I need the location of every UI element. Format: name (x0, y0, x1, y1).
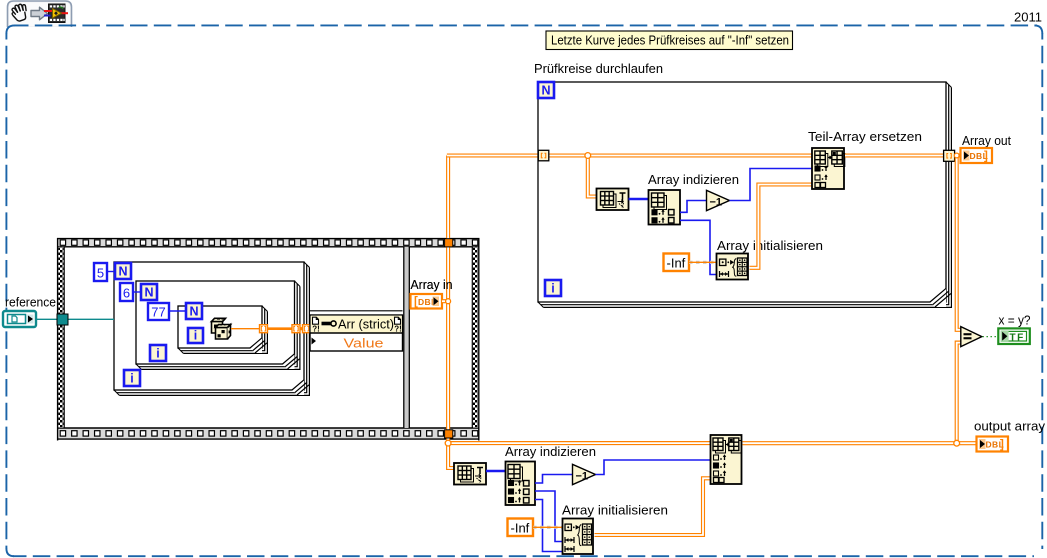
wire: main array wire bottom branch into array size (448, 442, 454, 468)
constant 5 (94, 263, 107, 281)
wire: reference refnum wire (36, 318, 114, 320)
wire: 2D array stub (300, 327, 303, 330)
svg-text:77: 77 (151, 305, 165, 320)
wire: loop frame shadows (139, 284, 298, 367)
constant -Inf (upper) (664, 254, 690, 272)
svg-text:x = y?: x = y? (999, 312, 1031, 327)
wire: array wire across main loop (546, 153, 813, 157)
wire: decrement to replace array subset index (upper) (730, 169, 813, 201)
node: wire junction at Array in (446, 299, 451, 304)
node: decrement -1 (lower) (573, 464, 596, 484)
svg-text:-Inf: -Inf (511, 521, 530, 536)
tunnel: sequence bottom tunnel (445, 430, 453, 438)
svg-text:?!: ?! (312, 325, 320, 334)
tunnel: main loop right tunnel (944, 150, 955, 161)
node: array size (upper) (597, 189, 629, 211)
tunnel: outer loop indexing tunnel (303, 325, 311, 333)
svg-text:output array: output array (974, 419, 1046, 434)
tunnel: sequence reference tunnel (57, 314, 68, 325)
tunnel: inner loop indexing tunnel (260, 325, 268, 333)
svg-text:Array indizieren: Array indizieren (648, 172, 739, 187)
svg-text:N: N (541, 84, 550, 98)
wire: bottom run to replace array subset (447, 441, 711, 445)
wire: main array wire vertical run (446, 156, 450, 444)
wire: Array in stub to vertical array wire (442, 299, 447, 303)
node: decrement -1 (upper) (707, 190, 730, 210)
node: output array indicator [DBL] (977, 437, 1009, 452)
wire: dice to inner tunnel (scalar DBL) (231, 328, 260, 330)
iteration terminal i (inner) (188, 328, 203, 343)
node: junction on main loop wire (585, 153, 591, 159)
node: TF boolean indicator (998, 328, 1030, 344)
wire: index array to decrement (lower) (535, 475, 573, 484)
wire: index array second out to initialize (lower) (535, 491, 563, 542)
wire: array size to index array (lower) (486, 470, 506, 473)
wire: decrement to replace array subset (lower) (596, 460, 711, 475)
node: toolbar tab (8, 1, 72, 27)
wire: loop frame shadows (117, 265, 307, 393)
iteration terminal i (outer) (124, 370, 140, 386)
constant 6 (120, 283, 133, 301)
node: wire junction bottom (445, 440, 451, 446)
svg-text:6: 6 (123, 286, 130, 301)
wire: lower vertical to equality y input (957, 343, 961, 444)
svg-text:Teil-Array ersetzen: Teil-Array ersetzen (808, 129, 922, 144)
tunnel: middle loop indexing tunnel (292, 325, 300, 333)
wire: replace array subset out to output array (743, 441, 977, 445)
iteration terminal i (main) (545, 280, 561, 296)
svg-text:−1: −1 (576, 470, 589, 482)
svg-text:−1: −1 (710, 196, 723, 208)
loop count N (inner) (186, 303, 202, 319)
iteration terminal i (middle) (150, 345, 166, 361)
svg-text:i: i (551, 282, 554, 296)
loop count N (outer) (115, 263, 131, 279)
wire: -Inf to initialize array (upper) (689, 261, 717, 264)
svg-text:Array initialisieren: Array initialisieren (717, 238, 823, 253)
wire: array size to index array (upper) (629, 198, 649, 201)
icon: step arrow (31, 7, 48, 20)
svg-text:i: i (130, 372, 133, 386)
wire: constant 5 to N (107, 271, 116, 273)
svg-text:-Inf: -Inf (667, 256, 686, 271)
svg-text:Array out: Array out (962, 133, 1011, 148)
svg-text:Array initialisieren: Array initialisieren (562, 503, 668, 518)
node: property node Arr (strict) / Value (310, 311, 403, 351)
constant -Inf (lower) (508, 519, 534, 537)
wire: loop frame shadows (541, 85, 949, 305)
wire: loop frame shadows (181, 309, 265, 351)
wire: constant 77 to N (169, 310, 187, 312)
svg-text:i: i (194, 329, 197, 343)
svg-text:i: i (156, 347, 159, 361)
loop count N (main) (538, 82, 554, 98)
wire: -Inf to initialize array (lower) (533, 526, 563, 529)
svg-text:Arr (strict): Arr (strict) (338, 317, 394, 332)
svg-text:Value: Value (344, 335, 384, 350)
wire: replace array subset out to right tunnel (845, 153, 944, 157)
icon: pan hand tool (12, 4, 26, 21)
constant 77 (148, 303, 169, 320)
wire: initialize array out to replace array subset (upper) (750, 185, 812, 268)
wire: tunnel to Array out indicator and down to equality (955, 153, 961, 157)
svg-text:5: 5 (97, 266, 104, 281)
node: Array out indicator [DBL] (961, 148, 993, 163)
svg-text:]: ] (1000, 439, 1004, 451)
svg-text:]: ] (984, 150, 988, 162)
svg-text:Letzte Kurve jedes Prüfkreises: Letzte Kurve jedes Prüfkreises auf "-Inf… (551, 33, 789, 48)
node: junction to output array (954, 440, 960, 446)
svg-text:N: N (144, 286, 153, 300)
svg-text:?!: ?! (394, 325, 402, 334)
loop count N (middle) (141, 284, 157, 300)
wire: main array wire top run to big loop (447, 153, 539, 157)
svg-text:reference: reference (5, 295, 56, 310)
node: flat sequence structure (film strip) (57, 238, 480, 441)
wire: index array out to decrement (upper) (680, 201, 707, 213)
wire: sequence frame divider (405, 247, 409, 428)
wire: branch down to array size (588, 156, 597, 197)
wire: constant 6 to N (133, 291, 142, 293)
wire: boolean dotted wire (983, 336, 999, 338)
svg-text:Array indizieren: Array indizieren (505, 444, 596, 459)
node: Array in control terminal [DBL] (411, 294, 443, 309)
node: replace array subset (lower) (711, 435, 742, 484)
svg-text:N: N (118, 265, 127, 279)
label: Letzte Kurve comment (546, 31, 793, 50)
node: equality x=y comparator (961, 327, 982, 347)
wire: initialize out to replace array subset (lower) (595, 478, 711, 535)
svg-text:TF: TF (1010, 333, 1025, 344)
wire: 1D array between tunnels (268, 327, 293, 330)
wire: index array third out to initialize (lower) (535, 500, 563, 552)
node: random number dice (212, 318, 231, 339)
node: reference refnum control (3, 311, 36, 327)
svg-text:N: N (189, 305, 198, 319)
icon: VI snippet film badge (44, 4, 68, 23)
wire: index array second out down to initialize (upper) (680, 220, 717, 274)
svg-text:Array in: Array in (411, 277, 453, 292)
svg-text:2011: 2011 (1014, 10, 1042, 25)
tunnel: main loop left tunnel (538, 150, 549, 161)
node: array size (lower) (454, 463, 486, 485)
svg-text:Prüfkreise durchlaufen: Prüfkreise durchlaufen (534, 61, 663, 76)
tunnel: sequence top tunnel (445, 239, 453, 247)
